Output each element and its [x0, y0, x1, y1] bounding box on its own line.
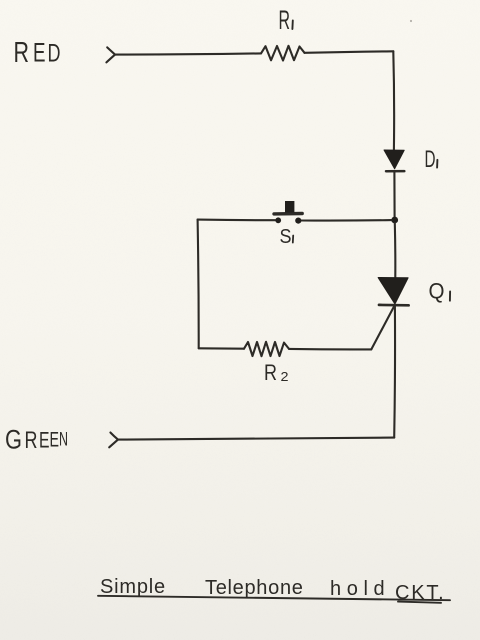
svg-text:S: S — [280, 226, 292, 248]
resistor R2 — [244, 342, 289, 356]
svg-text:G: G — [5, 425, 22, 455]
node junction dot — [391, 217, 398, 224]
svg-text:R: R — [279, 5, 291, 35]
switch S1 push-button — [275, 217, 281, 223]
speck artifact — [410, 20, 412, 22]
wire switch row right segment — [301, 219, 391, 222]
wire switch row left segment — [198, 219, 275, 222]
svg-text:hold: hold — [330, 578, 390, 600]
wire left vertical (switch row down to R2 row) — [198, 220, 199, 349]
node RED terminal label — [14, 37, 61, 69]
thyristor Q1 — [378, 278, 408, 304]
wire R2 row left segment — [199, 347, 244, 350]
svg-text:D: D — [48, 40, 61, 68]
svg-text:2: 2 — [281, 370, 289, 384]
svg-text:N: N — [59, 430, 68, 451]
svg-text:E: E — [50, 429, 60, 452]
wire D1 cathode to junction — [393, 172, 395, 217]
node GREEN terminal arrow — [109, 433, 118, 448]
node GREEN terminal label — [5, 425, 68, 455]
svg-text:D: D — [425, 146, 436, 173]
wire RED lead-in — [115, 53, 261, 54]
resistor R1 — [261, 46, 305, 61]
wire R2 to gate — [289, 348, 371, 351]
svg-text:R: R — [264, 360, 277, 385]
wire Q1 gate diagonal — [371, 305, 395, 349]
svg-text:E: E — [39, 428, 50, 453]
title underline second segment under CKT. — [398, 602, 441, 603]
svg-text:E: E — [33, 38, 46, 68]
svg-text:Simple: Simple — [100, 576, 166, 598]
svg-text:Q: Q — [429, 279, 445, 304]
wire junction to Q1 anode — [394, 223, 397, 277]
svg-text:R: R — [25, 427, 38, 454]
svg-text:Telephone: Telephone — [205, 577, 304, 599]
title underline — [98, 596, 450, 600]
wire GREEN lead (bottom horizontal) — [118, 438, 395, 440]
wire right vertical (corner down to D1 anode) — [392, 51, 395, 150]
wire R1 to top-right corner — [305, 51, 394, 53]
svg-text:R: R — [14, 37, 30, 69]
diode D1 — [384, 150, 404, 169]
node RED terminal arrow — [106, 47, 115, 62]
wire Q1 cathode down to bottom corner — [393, 307, 396, 438]
